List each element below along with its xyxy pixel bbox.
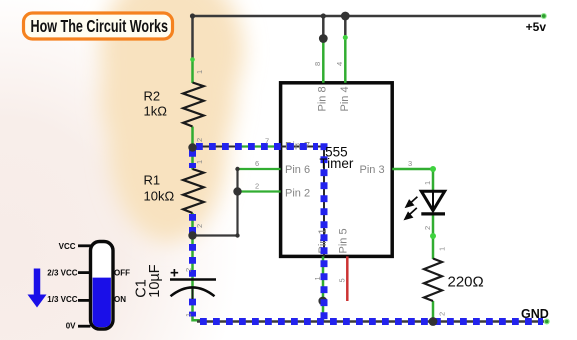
junction dot GND/220 [429, 317, 438, 326]
wire: LED cathode to 220 ohm [432, 214, 435, 259]
svg-text:3: 3 [408, 159, 412, 168]
LED D1 triangle [421, 191, 444, 210]
svg-text:Pin 3: Pin 3 [360, 164, 385, 176]
highlight dashes: junction A down (above R1) [189, 150, 196, 168]
svg-text:8: 8 [313, 62, 322, 66]
LED cathode bar [421, 212, 445, 215]
svg-text:1/3 VCC: 1/3 VCC [47, 295, 77, 304]
svg-text:2: 2 [438, 312, 447, 316]
svg-text:How The Circuit Works: How The Circuit Works [31, 17, 169, 37]
wire: GND rail end green node dot [544, 319, 550, 325]
highlight underlay: inside box down to bottom [281, 147, 324, 257]
svg-text:1: 1 [313, 276, 322, 280]
capacitor C1 plates [170, 278, 216, 281]
highlight dashes: vertical through IC [321, 143, 328, 321]
junction dot pin1 wire [318, 297, 327, 306]
resistor R3 220 ohm [424, 259, 442, 302]
svg-text:2/3 VCC: 2/3 VCC [47, 268, 77, 277]
gauge blue fill [93, 278, 111, 328]
svg-text:1: 1 [423, 181, 432, 185]
green node dot R2 wire top [190, 57, 195, 62]
junction dot rail left corner [190, 13, 195, 18]
wire: R2 bottom to junction A [191, 127, 194, 170]
gauge arrow head [28, 295, 47, 308]
svg-text:220Ω: 220Ω [448, 274, 484, 291]
gauge tick 2/3 VCC [78, 271, 91, 274]
capacitor bottom stub [192, 289, 194, 300]
title box [24, 13, 173, 39]
gauge tick 0V [78, 325, 91, 328]
junction dot pin8 stub [319, 34, 328, 43]
svg-text:R2: R2 [144, 89, 161, 104]
svg-text:Pin 6: Pin 6 [285, 164, 310, 176]
svg-text:+5v: +5v [526, 20, 547, 34]
svg-text:2: 2 [184, 268, 193, 272]
svg-text:2: 2 [255, 182, 259, 191]
gauge arrow shaft [34, 269, 41, 296]
svg-text:Timer: Timer [319, 156, 353, 171]
svg-text:4: 4 [335, 62, 344, 66]
junction dot pin6 corner [235, 167, 239, 171]
svg-text:R1: R1 [144, 173, 161, 188]
wire: junction B through C1 to ground corner [193, 236, 201, 320]
junction dot rail pin4 [341, 12, 350, 21]
svg-text:10kΩ: 10kΩ [144, 188, 175, 203]
svg-text:Pin 4: Pin 4 [339, 86, 351, 111]
svg-text:1: 1 [438, 247, 447, 251]
resistor R1 [183, 169, 204, 213]
gauge tube [91, 242, 114, 330]
svg-text:1: 1 [195, 70, 204, 74]
wire: rail to R2 top (black upper part) [191, 16, 194, 60]
svg-text:2: 2 [195, 224, 204, 228]
svg-text:ON: ON [114, 295, 126, 304]
wire: pin4 green [344, 35, 347, 83]
svg-text:Pin 2: Pin 2 [285, 188, 310, 200]
IC 555 body U1 [281, 83, 393, 257]
green node dot pin4 wire [343, 35, 348, 40]
junction dot pin2 [233, 187, 241, 195]
LED center lead line [432, 191, 434, 210]
wire: pin1 green below box [322, 256, 325, 321]
svg-text:7: 7 [265, 137, 269, 146]
wire: pin8 stub black [322, 16, 325, 39]
junction dot rail pin8 [321, 13, 326, 18]
green node dot rail end [541, 13, 547, 19]
svg-text:6: 6 [255, 159, 259, 168]
junction dot feedback corner [235, 233, 239, 237]
background peach blob [100, 0, 244, 242]
svg-text:1kΩ: 1kΩ [144, 104, 168, 119]
green node dot pin3 corner [430, 166, 436, 172]
wire: pin2 green [238, 190, 281, 192]
svg-text:OFF: OFF [114, 268, 130, 277]
svg-text:1: 1 [195, 160, 204, 164]
wire: pin7 green middle part [238, 145, 281, 147]
highlight dashes: below R1 [189, 214, 196, 236]
svg-text:Pin 8: Pin 8 [317, 86, 329, 111]
svg-text:2: 2 [195, 138, 204, 142]
svg-text:2: 2 [423, 226, 432, 230]
gauge tick VCC [78, 244, 91, 247]
wire: pin3 green to LED [392, 169, 433, 193]
wire: green drop to R2 [191, 60, 194, 84]
wire: GND rail black [197, 320, 546, 323]
svg-text:Pin 5: Pin 5 [338, 228, 350, 253]
highlight dashes: below C1 down [189, 299, 196, 317]
junction dot B (R1/C1) [188, 231, 196, 239]
LED arrow 2 [405, 208, 417, 219]
highlight underlay: pin7 wire left part [194, 146, 238, 148]
highlight dashes: pin7 horizontal [196, 143, 318, 150]
svg-text:VCC: VCC [59, 242, 76, 251]
wire: pin5 red stub [346, 256, 349, 301]
gauge tick 1/3 VCC [78, 299, 91, 302]
wire: feedback black L from junction B up to pin6 node [193, 169, 238, 236]
LED arrow 1 [406, 197, 417, 207]
svg-text:0V: 0V [66, 322, 76, 331]
wire: pin6 green [238, 168, 281, 170]
wire: pin8 green [322, 39, 325, 83]
wire: R1 bottom to junction B [191, 213, 194, 236]
highlight dashes: junction B to C1 [189, 244, 196, 277]
svg-text:5: 5 [338, 278, 347, 282]
wire: pin4 stub black [344, 16, 347, 35]
svg-text:+: + [170, 265, 179, 282]
svg-text:10µF: 10µF [147, 264, 163, 297]
svg-text:GND: GND [521, 307, 549, 321]
green node dot LED cathode [430, 233, 436, 239]
wire: +5v rail [193, 15, 544, 18]
wire: 220 ohm to GND rail [432, 301, 435, 322]
svg-text:1: 1 [184, 313, 193, 317]
resistor R2 [183, 83, 204, 127]
junction dot A (R2/R1) [188, 143, 196, 151]
highlight dashes: GND rail [200, 318, 543, 325]
